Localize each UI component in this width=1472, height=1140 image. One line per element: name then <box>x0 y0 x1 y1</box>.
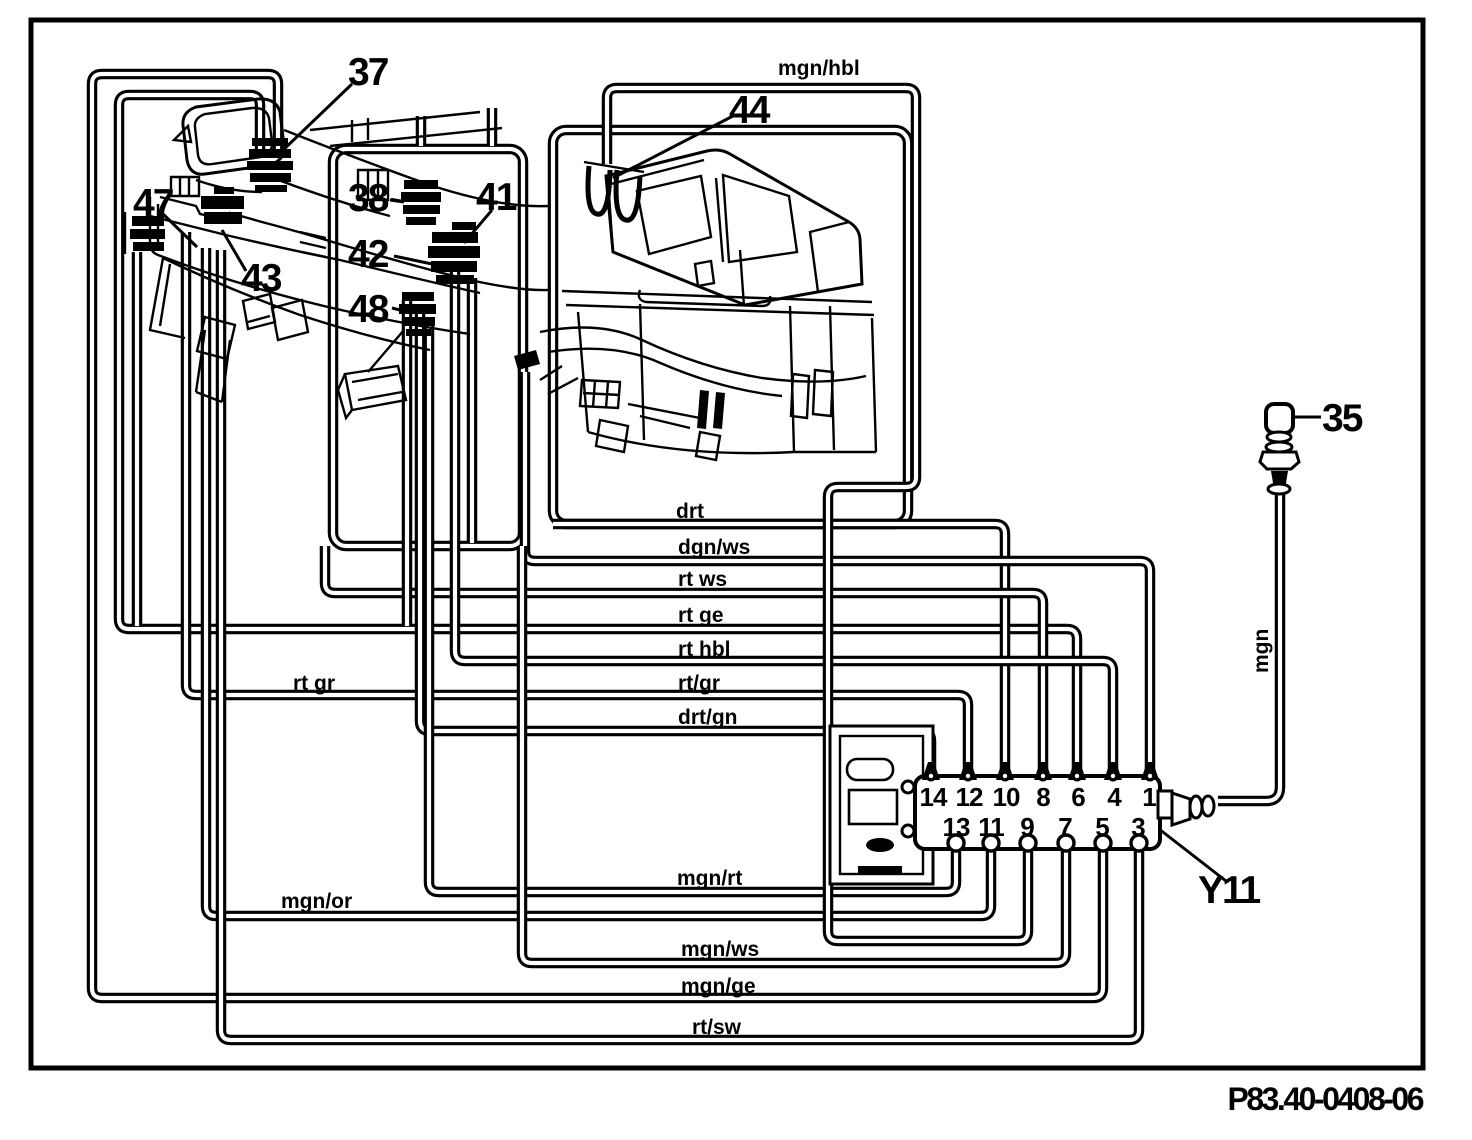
hose riser valve 38 <box>420 116 422 146</box>
svg-text:13: 13 <box>943 812 970 842</box>
svg-text:6: 6 <box>1071 782 1085 812</box>
svg-text:mgn/ge: mgn/ge <box>681 975 756 998</box>
svg-text:5: 5 <box>1095 812 1109 842</box>
svg-text:rt gr: rt gr <box>293 672 335 695</box>
svg-text:37: 37 <box>348 51 388 94</box>
hose rt/sw (valve 43 to port 3) <box>221 250 1139 1040</box>
Y11 control box <box>830 726 933 884</box>
hose mgn/or (valve 47 to port 11) <box>206 248 991 916</box>
hose dgn/ws (heater to port 1) <box>525 372 1150 769</box>
hose rt/ge loop (valve 37 to port 6) <box>119 95 1077 769</box>
Y11 bottom ports 13 11 9 7 5 3 <box>948 835 1147 851</box>
svg-text:35: 35 <box>1322 397 1363 440</box>
svg-text:48: 48 <box>348 288 389 331</box>
hose mgn/ws (middle box to port 7) <box>522 546 1066 963</box>
leader line 37 <box>280 84 352 153</box>
svg-text:8: 8 <box>1036 782 1050 812</box>
hose mgn/hbl (element 44 to port 9) <box>607 88 1028 941</box>
svg-text:4: 4 <box>1107 782 1122 812</box>
small grille right of hood <box>358 170 388 200</box>
leader line 43 <box>222 230 246 271</box>
hose stub from valve 47 down to rt/ge run <box>136 252 138 626</box>
hose rt/hbl (valve 42 to port 4) <box>455 268 1113 769</box>
svg-text:rt/gr: rt/gr <box>678 672 720 695</box>
svg-text:mgn/or: mgn/or <box>281 890 352 913</box>
enclosure box middle group <box>333 149 523 546</box>
svg-text:12: 12 <box>956 782 983 812</box>
hose mgn (item 35 to Y11 inlet) <box>1218 492 1280 801</box>
svg-text:14: 14 <box>920 782 948 812</box>
leader line 35 <box>1293 416 1321 419</box>
item 35 check valve <box>1260 404 1299 494</box>
svg-text:1: 1 <box>1142 782 1156 812</box>
svg-text:7: 7 <box>1058 812 1072 842</box>
bracket left of hood <box>171 177 199 196</box>
svg-text:3: 3 <box>1131 812 1145 842</box>
svg-text:9: 9 <box>1020 812 1034 842</box>
Y11 top ports 14 12 10 8 6 4 1 <box>922 762 1159 782</box>
svg-text:rt hbl: rt hbl <box>678 638 731 661</box>
leader line Y11 <box>1159 829 1226 881</box>
valve 42 with connector 41 <box>428 222 480 284</box>
heater unit: mid flange and body <box>540 290 876 460</box>
leader line 38 <box>390 200 404 202</box>
svg-text:44: 44 <box>729 89 771 132</box>
enclosure box heater unit <box>553 130 908 524</box>
leader line 47 <box>163 214 197 247</box>
console tray under 48 <box>338 330 406 418</box>
valve 38 element <box>391 180 441 225</box>
svg-text:drt: drt <box>676 500 704 523</box>
hose rt/ws (middle box to port 8) <box>325 546 1043 769</box>
valve 43 element <box>201 187 244 224</box>
dash lower small boxes <box>197 294 308 359</box>
valve 37 element <box>247 138 293 192</box>
leader line 48 <box>392 308 404 311</box>
svg-text:38: 38 <box>348 177 389 220</box>
hose drop from valve 42 <box>471 278 473 543</box>
svg-text:drt/gn: drt/gn <box>678 706 737 729</box>
dash assembly left: instrument hood <box>174 99 284 174</box>
hose mgn/ge loop (valve 37 to port 5) <box>92 74 1103 998</box>
svg-text:rt ws: rt ws <box>678 568 727 591</box>
hose riser valve 41/42 <box>491 108 493 146</box>
svg-text:41: 41 <box>476 176 517 219</box>
svg-text:mgn/rt: mgn/rt <box>677 867 742 890</box>
svg-text:P83.40-0408-06: P83.40-0408-06 <box>1227 1081 1423 1117</box>
svg-text:42: 42 <box>348 233 389 276</box>
svg-text:rt ge: rt ge <box>678 604 724 627</box>
Y11 manifold body <box>902 776 1160 849</box>
svg-text:Y11: Y11 <box>1198 869 1261 912</box>
svg-text:47: 47 <box>133 182 173 225</box>
leader line 42 <box>394 256 432 264</box>
Y11 outlet fitting to mgn hose <box>1158 791 1214 825</box>
valve 48 element <box>300 232 436 336</box>
svg-text:10: 10 <box>993 782 1020 812</box>
leader line 41 <box>464 210 492 243</box>
riser dgn/ws nub <box>514 350 540 370</box>
svg-text:mgn: mgn <box>1250 629 1273 673</box>
svg-text:mgn/hbl: mgn/hbl <box>778 57 860 80</box>
svg-text:43: 43 <box>241 257 282 300</box>
svg-text:11: 11 <box>978 812 1004 842</box>
leader line 44 <box>613 116 733 178</box>
hose drt/gn (valve 48 to port 14) <box>420 306 931 769</box>
hose drop from valve 48 to rt/ge <box>406 300 408 626</box>
svg-text:dgn/ws: dgn/ws <box>678 536 750 559</box>
hose rt/gr (valve 43 to port 12) <box>186 232 968 769</box>
dash body outline <box>150 112 548 402</box>
svg-text:mgn/ws: mgn/ws <box>681 938 759 961</box>
svg-text:rt/sw: rt/sw <box>692 1016 742 1039</box>
valve 47 element <box>125 212 165 254</box>
hose drt (heater box to port 10) <box>553 524 1005 769</box>
hose mgn/rt (valve 48 to port 13) <box>429 318 956 892</box>
heater unit: top cover <box>606 150 862 306</box>
element 44 nipples on heater <box>584 162 644 220</box>
